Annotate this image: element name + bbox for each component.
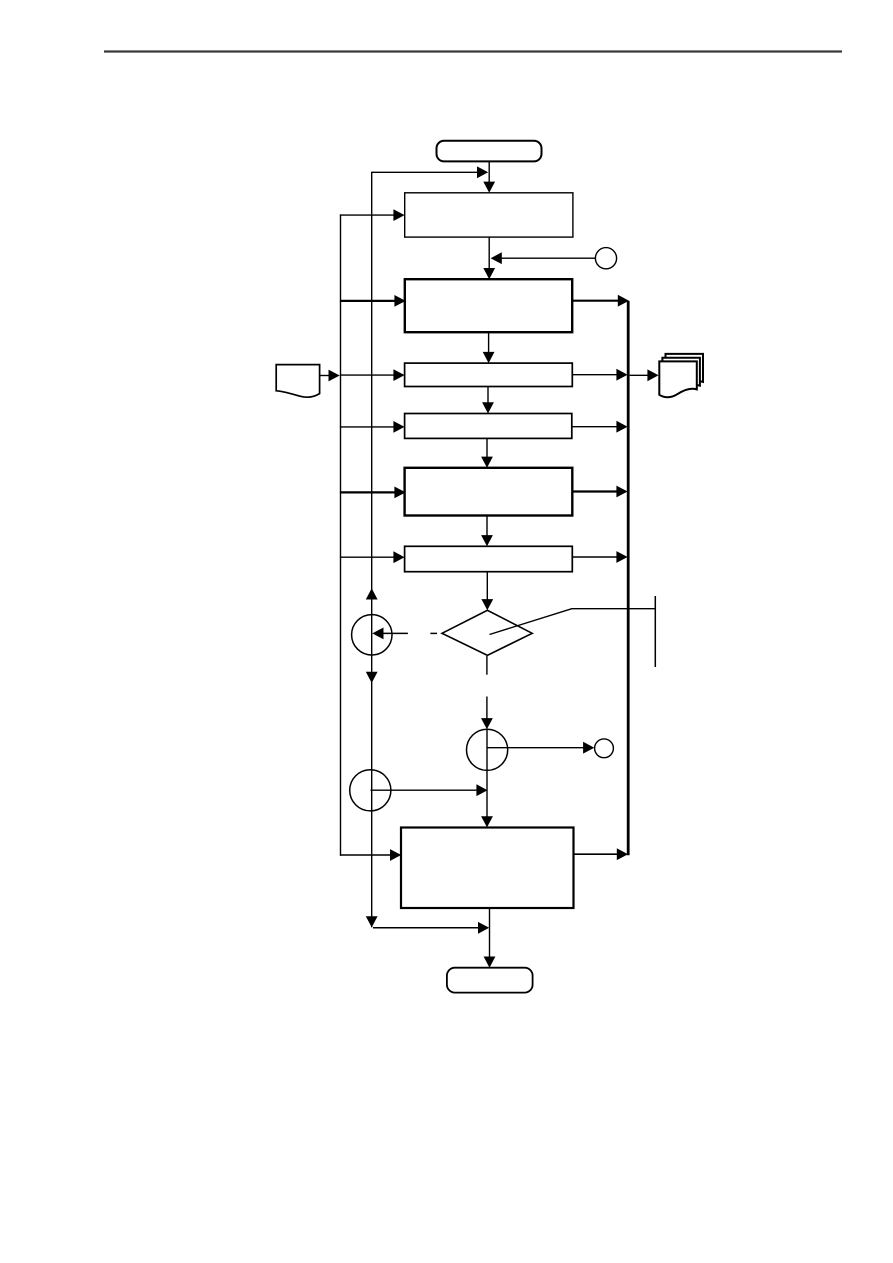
wire R to multidoc bbox=[630, 369, 659, 381]
process box7 bbox=[401, 828, 574, 909]
dashed wire decision to C2 bbox=[372, 628, 437, 640]
wire through C3 vertical bbox=[486, 729, 488, 770]
arrowhead up on bus B bbox=[366, 588, 378, 599]
wire box6 to decision bbox=[481, 572, 493, 611]
wire B bottom to end line bbox=[373, 922, 489, 934]
wire box7 to end bbox=[484, 908, 496, 968]
start terminator bbox=[437, 141, 542, 162]
wire box3 to box4 bbox=[482, 387, 494, 414]
process box6 bbox=[405, 546, 573, 571]
document shape left bbox=[276, 365, 319, 398]
wire A to box1 bbox=[340, 209, 405, 221]
arrowhead down at bus B bottom bbox=[366, 916, 378, 927]
process box2 bold bbox=[405, 279, 572, 332]
wire C3 to C4 bbox=[487, 742, 594, 754]
connector circle C3 bbox=[467, 729, 508, 770]
wire box2 to box3 bbox=[483, 332, 495, 363]
wire A to box7 bbox=[340, 849, 401, 861]
wire box1 to box2 bbox=[483, 237, 495, 279]
multi-document front page bbox=[659, 361, 697, 397]
dashed wire decision to C3 bbox=[481, 656, 493, 729]
wire A to box4 bbox=[340, 421, 405, 433]
process box3 bbox=[405, 363, 573, 386]
wire box7 to R bbox=[574, 848, 629, 860]
wire loop-return into start-box1 line bbox=[372, 166, 489, 178]
wire A to box2 bold bbox=[340, 295, 406, 307]
wire document to bus A bbox=[320, 370, 340, 382]
multi-document middle page bbox=[662, 358, 700, 394]
wire A to box6 bbox=[340, 551, 405, 563]
wire box5 to box6 bbox=[481, 516, 493, 547]
wire box5 to R bold bbox=[572, 486, 627, 498]
wire box4 to box5 bbox=[481, 438, 493, 467]
header rule bbox=[104, 50, 842, 52]
connector circle C2 bbox=[352, 615, 392, 655]
wire bus R vertical thick bbox=[627, 301, 630, 855]
wire A to box5 bold bbox=[340, 487, 406, 499]
end terminator bbox=[447, 968, 533, 993]
wire box6 to R bbox=[572, 551, 627, 563]
wire box2 to R bold bbox=[572, 295, 629, 307]
process box5 bold bbox=[405, 468, 573, 516]
process box4 bbox=[405, 414, 572, 439]
connector circle C5 bbox=[350, 770, 391, 811]
arrowhead down on bus B bbox=[366, 672, 378, 683]
wire box4 to R bbox=[572, 421, 628, 433]
connector circle C4 bbox=[595, 739, 614, 758]
process box1 bbox=[405, 193, 573, 237]
wire bus B vertical bbox=[371, 172, 373, 928]
wire A to box3 bbox=[340, 369, 405, 381]
wire C1 into box1-box2 line bbox=[491, 252, 596, 264]
right bar terminal bbox=[654, 596, 656, 667]
wire C5 to main line bbox=[371, 784, 488, 796]
wire bus A vertical bbox=[340, 214, 342, 855]
wire box3 to R bbox=[572, 369, 627, 381]
wire decision to right bar bbox=[490, 609, 655, 635]
decision diamond bbox=[442, 610, 532, 655]
multi-document back page bbox=[666, 354, 704, 390]
wire C3 to box7 bbox=[481, 770, 493, 827]
connector circle C1 bbox=[595, 248, 616, 269]
wire start to box1 bbox=[483, 161, 495, 192]
